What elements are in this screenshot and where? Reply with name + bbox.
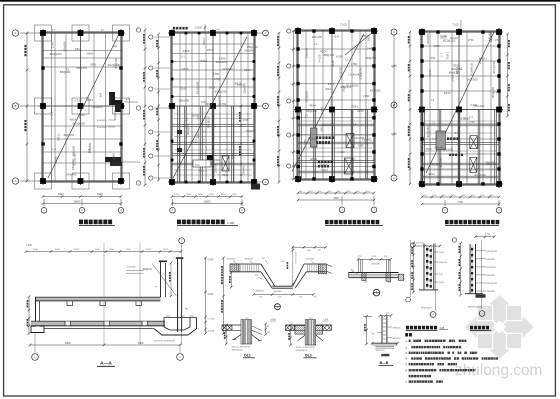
svg-text:L-1: L-1	[440, 52, 444, 56]
svg-text:Φ8@200: Φ8@200	[487, 290, 496, 293]
svg-text:7.: 7.	[405, 380, 407, 384]
svg-text:3Φ25@150Φ8: 3Φ25@150Φ8	[467, 306, 481, 309]
svg-text:B: B	[265, 104, 267, 108]
svg-text:240x400: 240x400	[66, 173, 77, 177]
svg-text:Φ8@200: Φ8@200	[304, 91, 308, 102]
plan 1 right bubble column	[136, 28, 140, 185]
svg-text:DL1: DL1	[244, 353, 251, 357]
svg-text:C: C	[265, 31, 267, 35]
B-B left dimension line	[366, 316, 368, 344]
svg-text:L-1: L-1	[352, 158, 356, 161]
svg-text:Φ8@200: Φ8@200	[339, 67, 343, 78]
svg-text:WKL1: WKL1	[57, 133, 61, 141]
detail 1: slab and wall junction section	[349, 240, 411, 302]
plan 1 bottom axis bubbles	[41, 199, 124, 213]
W1 left dim column	[413, 243, 415, 292]
plan 3 title	[325, 220, 383, 226]
svg-text:4.100: 4.100	[485, 234, 491, 236]
A-A leader annotations	[152, 264, 176, 296]
top black edge strip	[0, 0, 560, 2]
svg-text:240x400: 240x400	[434, 146, 444, 149]
svg-text:Φ8@200: Φ8@200	[306, 109, 317, 113]
svg-text:Φ8@150: Φ8@150	[489, 31, 493, 42]
svg-text:2Φ16: 2Φ16	[87, 52, 94, 56]
plan 1 left axis bubbles	[12, 30, 39, 184]
svg-text:3Φ18: 3Φ18	[331, 60, 335, 67]
svg-text:200x300: 200x300	[440, 157, 443, 167]
W1 wall body	[423, 244, 425, 290]
svg-text:Φ8@200: Φ8@200	[487, 258, 496, 261]
svg-text:L-1: L-1	[181, 54, 185, 58]
svg-text:WKL1: WKL1	[480, 56, 488, 60]
A-A left wall footing	[31, 326, 44, 332]
detail 1 slab body	[349, 272, 399, 274]
svg-text:WKL1: WKL1	[310, 158, 317, 161]
plan 4 gray slab patch	[436, 131, 445, 150]
svg-text:2Φ16: 2Φ16	[453, 63, 460, 67]
title: tank wall reinforcement detail	[470, 326, 491, 331]
svg-text:2.: 2.	[405, 345, 407, 349]
plan 2 bottom axis bubbles	[170, 184, 260, 214]
plan 3 short secondary diagonal	[345, 32, 373, 55]
svg-text:Φ8@200: Φ8@200	[308, 137, 319, 140]
svg-text:6.300: 6.300	[336, 54, 343, 58]
svg-text:4Φ14: 4Φ14	[428, 69, 432, 76]
A-A top dimension line	[26, 251, 181, 253]
svg-text:L-1: L-1	[433, 138, 437, 141]
svg-text:Φ8@200: Φ8@200	[370, 89, 381, 93]
svg-text:6.300: 6.300	[470, 103, 477, 107]
svg-text:6.300: 6.300	[270, 319, 276, 321]
svg-text:(-2.000): (-2.000)	[207, 331, 215, 333]
svg-text:1950: 1950	[434, 44, 440, 48]
svg-text:3Φ25@150: 3Φ25@150	[487, 282, 498, 285]
svg-text:1750: 1750	[213, 72, 219, 76]
W1 bottom axis bubble	[430, 312, 436, 318]
svg-text:4Φ14: 4Φ14	[205, 102, 212, 106]
svg-text:7Φ25@150: 7Φ25@150	[421, 307, 433, 310]
svg-text:10200: 10200	[204, 201, 211, 204]
plan 2 left dimension line	[156, 33, 160, 182]
svg-text:6.300: 6.300	[54, 156, 58, 163]
svg-text:1750: 1750	[429, 56, 435, 60]
svg-text:1750: 1750	[468, 38, 474, 42]
svg-text:2700: 2700	[214, 77, 220, 81]
svg-text:4Φ14: 4Φ14	[235, 82, 242, 86]
svg-text:5400: 5400	[97, 193, 103, 196]
detail 1 side axis line and bubble A	[410, 240, 412, 297]
detail 2 left end hatch wedge	[230, 264, 239, 272]
svg-text:Φ8@200: Φ8@200	[273, 290, 282, 293]
svg-text:YKB-1: YKB-1	[351, 105, 359, 109]
svg-text:250x500: 250x500	[304, 47, 308, 58]
wall detail W1: tank top face reinforcement	[411, 242, 448, 318]
svg-text:70 70: 70 70	[371, 256, 377, 258]
svg-text:Φ10@150: Φ10@150	[73, 122, 86, 126]
W2 wall body	[469, 244, 471, 294]
svg-text:3Φ25@150: 3Φ25@150	[487, 250, 498, 253]
svg-text:2Φ16: 2Φ16	[180, 86, 187, 90]
svg-text:L-1: L-1	[185, 118, 189, 121]
svg-text:Φ10@200: Φ10@200	[97, 119, 107, 122]
plan 1 extra edge column squares	[41, 66, 122, 145]
svg-text:A: A	[15, 179, 17, 183]
svg-text:120: 120	[267, 332, 270, 334]
plan 4 title	[445, 220, 499, 226]
W1 axis line	[435, 243, 437, 311]
detail 2 right end hatch and step	[318, 264, 326, 274]
wall detail W2: tank wall reinforcement	[452, 234, 497, 317]
svg-text:3Φ22 150: 3Φ22 150	[376, 349, 386, 352]
svg-text:1: 1	[376, 291, 378, 295]
svg-text:B-8: B-8	[113, 44, 118, 48]
plan 3 lower region hatched boxes	[346, 134, 354, 148]
svg-text:250x500: 250x500	[71, 145, 75, 156]
W1 leaders	[434, 251, 438, 253]
svg-text:4Φ14: 4Φ14	[75, 47, 82, 51]
plan 2 right axis bubbles	[256, 30, 268, 185]
plan 3 bottom axis bubbles	[339, 196, 377, 213]
svg-text:5400: 5400	[138, 342, 144, 345]
svg-text:2700: 2700	[329, 100, 333, 106]
detail 1 wall stubs below slab	[362, 273, 366, 281]
plan 4 bottom dimension lines	[421, 195, 501, 206]
detail 1 index circle	[373, 289, 380, 296]
plan 3 gray slab patch	[311, 128, 318, 147]
plan 2 right inner dim ladder	[240, 106, 242, 182]
DL2 right slab	[316, 324, 332, 326]
DL1 left slab	[222, 324, 241, 326]
svg-text:7.000: 7.000	[208, 260, 214, 262]
svg-text:2700: 2700	[495, 38, 501, 42]
detail 1 adjoining beam hatch at right	[398, 274, 403, 280]
svg-text:1:100: 1:100	[227, 221, 234, 225]
svg-text:L2: L2	[305, 113, 308, 117]
A-A bottom axis bubbles	[34, 334, 36, 354]
A-A right axis line and bubble	[181, 244, 183, 345]
DL2 left slab	[285, 324, 305, 326]
DL1 bottom flare	[234, 335, 241, 340]
svg-text:4.000: 4.000	[208, 294, 214, 296]
DL1 beam box	[241, 320, 252, 344]
detail 2 right slope	[293, 264, 304, 286]
svg-text:3Φ18: 3Φ18	[328, 82, 335, 86]
plan 3 bottom dimension lines	[297, 191, 376, 202]
svg-text:Φ8@150: Φ8@150	[114, 58, 118, 69]
svg-text:250x500: 250x500	[179, 99, 190, 103]
plan 3: lower tank beams plan	[292, 20, 381, 183]
svg-text:Φ10@150: Φ10@150	[492, 61, 496, 74]
svg-text:3Φ18: 3Φ18	[197, 132, 200, 139]
A-A left wall	[35, 297, 37, 326]
svg-text:B: B	[15, 104, 17, 108]
A-A mud mat line under bottom slab	[44, 328, 154, 330]
svg-text:A—A: A—A	[100, 360, 112, 366]
svg-text:DL2: DL2	[305, 353, 312, 357]
detail 2 middle vertical dim	[292, 246, 294, 286]
svg-text:Φ8@200: Φ8@200	[245, 258, 254, 261]
plan 4: upper tank beams plan	[418, 20, 503, 188]
svg-text:4Φ14: 4Φ14	[428, 173, 435, 176]
plan 3 lower region text clusters	[316, 136, 318, 139]
A-A upper tank right wall	[160, 261, 162, 297]
svg-text:10800: 10800	[74, 201, 82, 204]
svg-text:250x500: 250x500	[214, 163, 217, 173]
svg-text:YKB-1: YKB-1	[200, 59, 208, 63]
W2 axis line	[481, 240, 483, 309]
svg-text:200x300: 200x300	[216, 60, 227, 64]
detail 2 right slab band	[304, 263, 326, 265]
svg-text:B-8: B-8	[78, 113, 82, 118]
svg-text:Φ8@150: Φ8@150	[491, 87, 495, 98]
svg-text:3Φ18: 3Φ18	[222, 174, 229, 177]
svg-text:2Φ16: 2Φ16	[183, 49, 190, 53]
svg-text:2700: 2700	[243, 119, 249, 122]
svg-text:2Φ14 +3 5Φ25@150: 2Φ14 +3 5Φ25@150	[296, 346, 316, 349]
svg-text:-7.700: -7.700	[208, 319, 215, 321]
svg-text:Φ10@150: Φ10@150	[470, 63, 474, 76]
svg-text:7Φ6 1150 5Φ25@150: 7Φ6 1150 5Φ25@150	[153, 340, 175, 343]
svg-text:YKB-1: YKB-1	[210, 157, 213, 165]
svg-text:7.100: 7.100	[323, 319, 329, 321]
plan 2 right dimension ladder	[277, 32, 280, 184]
plan 4 lower region beam grid	[422, 123, 499, 125]
svg-text:1950: 1950	[90, 62, 96, 66]
svg-text:Φ8@200: Φ8@200	[306, 258, 315, 261]
svg-text:4Φ14: 4Φ14	[309, 104, 316, 108]
detail 2 bottom dim	[254, 293, 314, 295]
svg-text:3Φ18: 3Φ18	[463, 117, 470, 121]
svg-text:B-8: B-8	[334, 35, 339, 39]
detail 2 left vertical dim	[230, 273, 232, 287]
plan 2 top edge annotations	[173, 27, 175, 30]
svg-text:h=120: h=120	[50, 111, 54, 119]
svg-text:□8@200: □8@200	[371, 262, 380, 265]
A-A vertical dim between upper walls	[170, 263, 172, 296]
svg-text:2Φ14 +3 5Φ25@150: 2Φ14 +3 5Φ25@150	[232, 346, 252, 349]
plan 4 left dimension line	[408, 31, 412, 186]
svg-text:2Φ16: 2Φ16	[207, 48, 214, 52]
svg-text:240x400: 240x400	[351, 73, 362, 77]
svg-text:Φ12@200: Φ12@200	[108, 94, 112, 107]
DL2 left haunch hatch	[295, 326, 305, 335]
A-A bottom dimension line	[30, 344, 180, 346]
detail 2 bottom band	[272, 285, 293, 287]
svg-text:L-1: L-1	[53, 147, 57, 151]
detail 2 index circle	[274, 304, 280, 310]
plan 4 bottom axis bubbles	[442, 200, 502, 213]
svg-text:h=120: h=120	[338, 151, 346, 154]
svg-text:L2: L2	[345, 58, 348, 62]
svg-text:Φ12@200: Φ12@200	[322, 123, 334, 126]
svg-text:200x300: 200x300	[431, 164, 441, 167]
detail 2: gutter beam cross-section	[227, 246, 332, 310]
svg-text:C: C	[15, 31, 17, 35]
plan 3 left axis bubbles and ticks	[287, 29, 296, 180]
svg-text:Φ8@200 (2): Φ8@200 (2)	[232, 349, 243, 352]
svg-text:1750: 1750	[351, 62, 357, 66]
plan 2 lower region hatch box	[222, 156, 229, 171]
plan 4 right dimension ticks	[506, 33, 510, 118]
svg-text:240x400: 240x400	[444, 148, 454, 151]
svg-text:h=120: h=120	[317, 54, 321, 62]
plan 2: tank top slab framing plan	[168, 24, 258, 186]
svg-text:Φ8@200: Φ8@200	[392, 327, 401, 330]
svg-text:1.: 1.	[405, 339, 407, 343]
svg-text:60: 60	[267, 326, 269, 328]
svg-text:1750: 1750	[363, 94, 369, 98]
svg-text:Φ8@150: Φ8@150	[143, 268, 153, 271]
plan 3 lower region beam grid	[298, 123, 374, 125]
plan 2 left axis bubbles	[149, 35, 170, 180]
svg-text:L2: L2	[431, 98, 434, 102]
plan 1 title: tank roof reinforcement plan	[79, 220, 115, 226]
svg-text:Φ12@150: Φ12@150	[487, 266, 497, 269]
A-A sump pit at right end	[164, 317, 197, 319]
B-B leaders	[377, 332, 382, 334]
svg-text:2Φ16: 2Φ16	[182, 67, 189, 71]
svg-text:Φ8@150: Φ8@150	[76, 66, 87, 70]
W2 top axis circle	[452, 238, 456, 242]
svg-text:YKB-1: YKB-1	[321, 169, 329, 172]
svg-text:1750: 1750	[304, 139, 307, 145]
plan 4 edge column squares	[420, 44, 423, 47]
detail 2 left slope	[261, 264, 275, 286]
B-B footing	[372, 342, 397, 344]
svg-text:Φ10@150: Φ10@150	[427, 126, 430, 138]
svg-text:Φ8@200: Φ8@200	[487, 274, 496, 277]
plan 4 lower region text clusters	[447, 137, 449, 140]
A-A tall right wall on axis	[177, 258, 179, 332]
svg-text:2Φ16: 2Φ16	[426, 148, 433, 151]
W1 base	[419, 289, 438, 291]
svg-text:h=120: h=120	[190, 141, 198, 144]
W2 left dim column	[460, 243, 462, 295]
detail DL2: interior beam section	[285, 318, 331, 358]
W1 top axis circle	[411, 243, 415, 247]
A-A bottom slab beam pockets	[65, 321, 70, 325]
plan 1 right dimension ladder	[143, 29, 146, 187]
plan 1 bottom dimension lines	[42, 193, 123, 205]
DL2 beam box	[305, 320, 316, 345]
detail 1 top rebar dowels	[358, 259, 360, 272]
svg-text:L-1: L-1	[432, 121, 435, 125]
svg-text:Φ8@200: Φ8@200	[218, 95, 222, 106]
svg-text:Φ8@150: Φ8@150	[449, 70, 460, 74]
svg-text:10200: 10200	[195, 27, 203, 30]
notes text block	[405, 333, 498, 384]
svg-text:A: A	[393, 176, 395, 180]
svg-text:Φ10@200: Φ10@200	[97, 126, 107, 129]
plan 2 edge beam marks	[185, 32, 188, 35]
svg-text:6.300: 6.300	[111, 153, 115, 160]
svg-text:6.300: 6.300	[320, 107, 324, 114]
svg-text:2Φ16: 2Φ16	[244, 68, 251, 72]
svg-text:B—B: B—B	[380, 361, 389, 365]
svg-text:B-8: B-8	[87, 148, 91, 153]
svg-text:7.100: 7.100	[26, 245, 32, 247]
DL1 right slab wedge	[252, 330, 263, 334]
svg-text:A: A	[265, 180, 267, 184]
svg-text:2700: 2700	[232, 153, 235, 159]
svg-text:Φ12@200: Φ12@200	[187, 123, 190, 135]
svg-text:1-1: 1-1	[126, 97, 130, 101]
svg-text:240x400: 240x400	[312, 35, 323, 39]
svg-text:Φ8@200: Φ8@200	[256, 290, 265, 293]
svg-text:240x400: 240x400	[92, 105, 103, 109]
svg-text:Φ8@150: Φ8@150	[487, 163, 498, 166]
svg-text:Φ12@200: Φ12@200	[49, 52, 62, 56]
plan 2 title: tank top slab reinforcement plan	[177, 220, 238, 226]
svg-text:L-1: L-1	[353, 123, 357, 126]
svg-text:3Φ18: 3Φ18	[214, 159, 221, 162]
svg-text:2700: 2700	[469, 121, 475, 124]
plan 1 dark rebar detail blobs	[109, 92, 115, 105]
W2 base and bottom annotations	[465, 293, 483, 295]
svg-text:100 100: 100 100	[416, 243, 424, 245]
svg-text:3Φ18: 3Φ18	[209, 86, 216, 90]
plan 3 edge column squares	[296, 47, 299, 50]
svg-text:240x400: 240x400	[242, 164, 245, 174]
plan 2 lower region beam grid	[172, 124, 254, 126]
svg-text:7.100: 7.100	[340, 23, 347, 27]
svg-text:YKB-1: YKB-1	[445, 51, 449, 59]
svg-text:4Φ14: 4Φ14	[202, 38, 206, 45]
A-A right dimension columns	[205, 257, 207, 334]
W2 leaders	[476, 250, 487, 252]
watermark: zhulong pinwheel logo	[465, 295, 534, 359]
title: tank top face reinforcement detail	[406, 326, 448, 331]
svg-text:Φ12@200: Φ12@200	[108, 63, 121, 67]
svg-text:Φ8@150: Φ8@150	[63, 133, 74, 137]
svg-text:1950: 1950	[358, 145, 364, 148]
plan 4 lower region hatched boxes	[470, 136, 478, 149]
svg-text:4Φ14: 4Φ14	[86, 98, 93, 102]
svg-text:B-8: B-8	[455, 132, 460, 135]
svg-text:B-8: B-8	[98, 92, 102, 97]
svg-text:200x300: 200x300	[426, 33, 430, 44]
A-A roof slab	[36, 296, 161, 299]
svg-text:Φ8@200: Φ8@200	[392, 337, 401, 340]
svg-text:Φ8@150: Φ8@150	[365, 56, 376, 60]
svg-text:4Φ14: 4Φ14	[70, 117, 77, 121]
svg-text:7.100: 7.100	[452, 23, 459, 27]
svg-text:2700: 2700	[197, 113, 200, 119]
svg-text:5.: 5.	[405, 362, 407, 366]
svg-text:240x400: 240x400	[222, 67, 233, 71]
svg-text:6.300: 6.300	[440, 34, 447, 38]
svg-text:6.: 6.	[405, 368, 407, 372]
A-A left dimension column	[28, 297, 30, 334]
svg-text:Φ12@200: Φ12@200	[195, 81, 199, 94]
svg-text:2Φ16: 2Φ16	[341, 85, 345, 92]
detail 2 left slab band	[230, 263, 261, 265]
svg-text:h=120: h=120	[450, 36, 458, 40]
plan 2 lower region blobs and box	[207, 155, 213, 160]
plan 2 bottom dimension lines	[171, 194, 244, 205]
DL2 bottom flare	[298, 335, 305, 341]
svg-text:7700: 7700	[457, 201, 463, 204]
plan 2 corner section-cut mark	[251, 184, 260, 190]
svg-text:6.300: 6.300	[219, 56, 226, 60]
svg-text:3.: 3.	[405, 351, 407, 355]
svg-text:2Φ16: 2Φ16	[450, 74, 454, 81]
plan 1 left dimension line	[24, 32, 28, 183]
svg-text:Φ12@200: Φ12@200	[474, 174, 486, 177]
svg-text:4Φ14: 4Φ14	[444, 91, 451, 95]
svg-text:250x500: 250x500	[244, 48, 255, 52]
svg-text:Φ12@200: Φ12@200	[346, 84, 359, 88]
